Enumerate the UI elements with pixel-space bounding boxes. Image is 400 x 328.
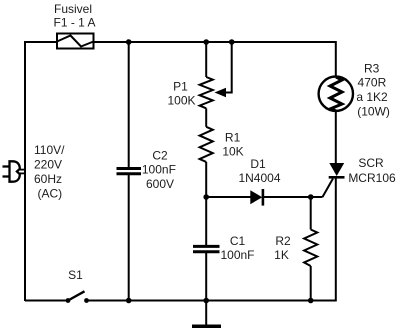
svg-text:1K: 1K xyxy=(274,248,289,262)
wire C1 top lead xyxy=(205,197,207,245)
wire SCR gate diagonal xyxy=(323,179,334,198)
svg-text:100K: 100K xyxy=(167,94,195,108)
svg-text:R2: R2 xyxy=(275,234,291,248)
SCR MCR106 xyxy=(329,163,345,177)
svg-text:F1 - 1 A: F1 - 1 A xyxy=(53,16,95,30)
wire C2 branch bottom xyxy=(128,175,130,301)
svg-text:100nF: 100nF xyxy=(220,248,254,262)
wire R2 top lead xyxy=(310,197,312,230)
junction bottom C1-ground xyxy=(203,298,209,304)
ground xyxy=(192,325,221,328)
svg-text:(10W): (10W) xyxy=(357,104,390,118)
resistor R2 xyxy=(304,230,317,267)
wire P1 top lead xyxy=(205,42,207,77)
svg-text:D1: D1 xyxy=(250,157,266,171)
potentiometer P1 xyxy=(200,77,213,108)
wire bottom right segment xyxy=(87,178,336,300)
wire top segment fuse to right corner xyxy=(94,42,336,77)
junction bottom C2 xyxy=(126,298,132,304)
wire R2 bottom lead xyxy=(310,266,312,301)
P1 wiper arrow xyxy=(215,88,227,97)
AC plug xyxy=(3,161,26,181)
junction top P1 xyxy=(203,39,209,45)
capacitor C1 xyxy=(193,246,220,251)
svg-text:C2: C2 xyxy=(152,148,168,162)
svg-text:SCR: SCR xyxy=(358,156,384,170)
junction top C2 xyxy=(126,39,132,45)
svg-text:110V/: 110V/ xyxy=(34,143,65,157)
svg-text:220V: 220V xyxy=(34,157,62,171)
wire gate row right xyxy=(264,196,323,198)
wire ground stub xyxy=(205,301,207,326)
svg-text:100nF: 100nF xyxy=(142,163,176,177)
svg-text:C1: C1 xyxy=(230,234,246,248)
capacitor C2 xyxy=(117,169,142,174)
wire R1 bottom lead xyxy=(205,162,207,197)
svg-text:60Hz: 60Hz xyxy=(34,172,62,186)
svg-text:R1: R1 xyxy=(225,131,241,145)
svg-text:(AC): (AC) xyxy=(38,186,63,200)
wire C1 bottom lead xyxy=(205,253,207,301)
svg-text:600V: 600V xyxy=(146,177,174,191)
svg-text:MCR106: MCR106 xyxy=(348,171,396,185)
svg-text:1N4004: 1N4004 xyxy=(238,171,280,185)
svg-text:Fusivel: Fusivel xyxy=(54,2,92,16)
resistor R3 (lamp symbol) xyxy=(319,77,353,111)
wire R3 to SCR anode xyxy=(335,111,337,163)
fuse F1 xyxy=(57,34,94,49)
wire P1 to R1 xyxy=(205,108,207,127)
wire bottom left segment xyxy=(25,300,68,302)
svg-text:R3: R3 xyxy=(364,62,380,76)
svg-text:S1: S1 xyxy=(68,268,83,282)
svg-text:470R: 470R xyxy=(358,76,387,90)
junction top wiper xyxy=(229,39,235,45)
resistor R1 xyxy=(200,127,213,162)
junction bottom R2 xyxy=(308,298,314,304)
switch S1 xyxy=(66,291,89,303)
svg-text:P1: P1 xyxy=(173,79,188,93)
wire top left segment xyxy=(25,42,57,301)
svg-text:a 1K2: a 1K2 xyxy=(356,90,388,104)
wire C2 branch top xyxy=(128,42,130,167)
junction D1-R2-gate xyxy=(308,194,314,200)
diode D1 xyxy=(250,189,263,206)
wire P1 wiper branch xyxy=(225,42,232,93)
junction R1-D1-C1 xyxy=(203,194,209,200)
wire gate row left xyxy=(206,196,250,198)
svg-text:10K: 10K xyxy=(222,145,243,159)
